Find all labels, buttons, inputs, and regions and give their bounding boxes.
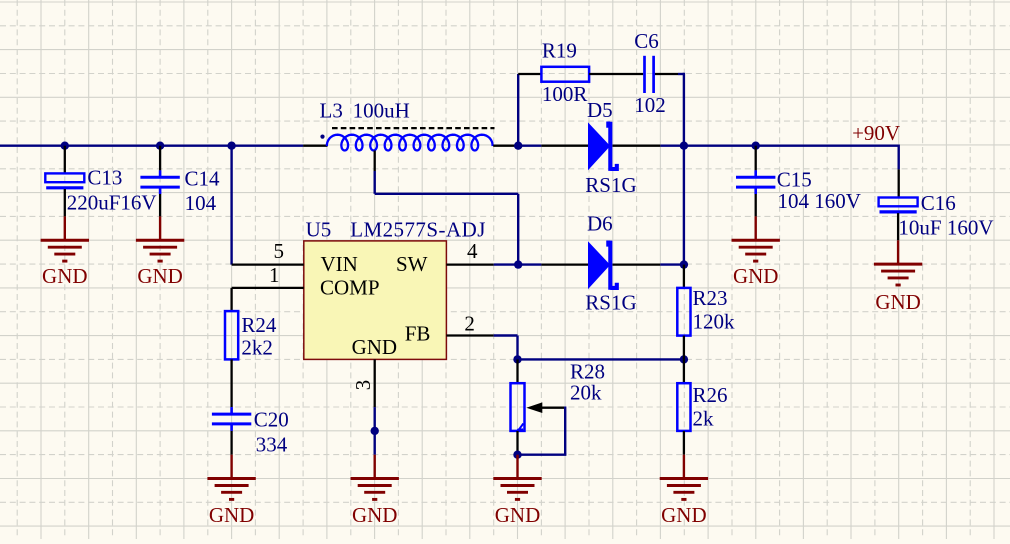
junction node D5 cathode [680,142,688,150]
capacitor C15 pin bottom [755,194,757,216]
svg-text:GND: GND [875,290,921,314]
label C6 value 102 [634,93,666,117]
capacitor C15 body [736,170,775,194]
svg-text:C13: C13 [87,166,122,190]
pin number 2 [464,311,475,335]
resistor R28 pin bottom [516,431,518,455]
power stem GND C15 [755,216,757,240]
resistor R26 pin bottom [683,431,685,455]
svg-text:120k: 120k [693,310,736,334]
svg-text:4: 4 [467,239,478,263]
label C20 designator [254,408,289,432]
pin 5 VIN [232,263,304,265]
svg-text:D6: D6 [587,212,613,236]
label U5 designator [306,217,332,241]
pin number 1 [269,263,280,287]
label C15 designator [777,168,812,192]
label R24 designator [241,313,277,337]
pin 4 SW [446,263,493,265]
capacitor C16 pin top [898,169,900,197]
op-amp U5 body [304,241,447,360]
capacitor C16 body [879,198,918,212]
wire FB stub [494,334,518,336]
capacitor C15 pin top [755,146,757,171]
label L3 value 100uH [353,98,410,122]
svg-text:220uF16V: 220uF16V [67,191,157,215]
power stem GND C20 [230,455,232,479]
resistor R24 body [225,311,238,359]
resistor R19 pin 2 / wire to C6 [589,73,643,75]
pin name GND [352,335,398,359]
label GND U5 [352,503,398,527]
power stem GND R26 [683,455,685,479]
svg-text:GND: GND [137,264,183,288]
diode D6 body [588,241,617,290]
pin name VIN [321,252,358,276]
resistor R23 pin bottom [683,336,685,360]
wire D5-D6 cathode vertical [683,146,685,265]
wire main to R23 node [660,144,684,146]
pin 1 COMP [232,287,304,289]
junction R28 bottom [513,451,521,459]
label R26 value 2k [693,406,715,430]
capacitor C6 pin 2 [655,73,678,75]
capacitor C14 pin top [159,146,161,171]
power stem GND U5 [374,455,376,479]
svg-text:GND: GND [352,503,398,527]
ground GND C14 [136,240,184,261]
ground GND R28 [493,479,541,500]
wire wiper to bottom [518,454,567,456]
svg-text:334: 334 [256,433,288,457]
wire VIN branch vertical [230,146,232,265]
wire COMP corner [230,288,232,311]
diode D5 body [588,122,617,171]
label R26 designator [693,383,728,407]
capacitor C6 plate left [643,56,646,93]
svg-text:C16: C16 [921,191,956,215]
resistor R23 body [677,288,690,336]
capacitor C13 body [45,173,84,187]
inductor L3 polarity dot [320,135,324,139]
label C15 value 104 160V [778,189,861,213]
svg-text:GND: GND [661,503,707,527]
capacitor C6 plate right [652,56,655,93]
svg-text:GND: GND [495,503,541,527]
label R23 designator [693,286,728,310]
wire L3 tap to SW vertical 2 [517,194,519,265]
label R28 value 20k [570,380,602,404]
svg-text:104: 104 [185,191,217,215]
wire R24 to C20 [230,359,232,407]
wire C6 to cathode vertical [678,73,684,75]
label GND R28 [495,503,541,527]
resistor R26 pin top [683,359,685,383]
label C14 value 104 [185,191,217,215]
label C16 designator [921,191,956,215]
pin number 3 [351,380,375,391]
diode D5 anode pin [541,145,588,147]
label C13 designator [87,166,122,190]
label GND C15 [733,264,779,288]
svg-text:GND: GND [42,264,88,288]
svg-text:VIN: VIN [321,252,358,276]
pin name SW [396,252,428,276]
svg-text:R23: R23 [693,286,728,310]
svg-text:L3: L3 [320,98,343,122]
inductor L3 dashed core line [332,127,495,129]
junction FB-R23-R26 [680,355,688,363]
wire D5 anode stub [518,144,541,146]
wire R19 branch vertical [517,74,519,146]
ground GND R26 [660,479,708,500]
label C20 value 334 [256,433,288,457]
svg-text:R24: R24 [241,313,277,337]
svg-text:100R: 100R [542,82,588,106]
wire main input net [0,144,303,146]
wire wiper down [564,407,566,455]
wire pin3 below junction [374,431,376,455]
svg-text:FB: FB [405,322,431,346]
junction node SW-D5 top [514,142,522,150]
wire pin3 to junction [374,407,376,431]
ground GND C13 [41,240,89,261]
svg-text:U5: U5 [306,217,332,241]
label R24 value 2k2 [241,335,273,359]
label R23 value 120k [693,310,736,334]
label C14 designator [185,167,221,191]
svg-text:D5: D5 [587,98,613,122]
label R28 designator [570,359,605,383]
capacitor C14 pin bottom [159,194,161,216]
pin name FB [405,322,431,346]
ground GND C16 [874,264,922,285]
capacitor C13 pin bottom [64,189,66,216]
svg-text:R26: R26 [693,383,728,407]
label R19 designator [542,39,577,63]
power stem GND R28 [516,455,518,479]
pin 2 FB [446,334,493,336]
label C6 designator [634,29,659,53]
label U5 part LM2577S-ADJ [350,217,486,241]
wire R23 node vertical top [683,73,685,146]
pin number 4 [467,239,478,263]
label D5 value RS1G [585,173,636,197]
diode D6 anode pin [541,263,588,265]
ground GND C15 [732,240,780,261]
resistor R19 body [541,67,589,82]
inductor L3 pin 2 [493,145,518,147]
svg-text:1: 1 [269,263,280,287]
capacitor C13 pin top [64,146,66,174]
label C13 value 220uF16V [67,191,157,215]
label C16 value 10uF 160V [898,216,993,240]
svg-text:LM2577S-ADJ: LM2577S-ADJ [350,217,486,241]
svg-text:3: 3 [351,380,375,391]
wire FB vertical [516,336,518,360]
capacitor C16 pin bottom [897,213,899,240]
svg-text:C14: C14 [185,167,221,191]
label GND C20 [209,503,255,527]
label GND C14 [137,264,183,288]
svg-text:C15: C15 [777,168,812,192]
svg-text:RS1G: RS1G [585,291,636,315]
svg-text:C20: C20 [254,408,289,432]
svg-text:2: 2 [464,311,475,335]
wire output net [684,144,899,146]
resistor R28 wiper arrow [526,402,565,413]
junction VIN branch [227,142,235,150]
resistor R28 pin top [516,359,518,383]
label D6 designator [587,212,613,236]
wire output corner down [898,145,900,170]
capacitor C20 [212,407,251,431]
svg-text:R19: R19 [542,39,577,63]
pin name COMP [320,276,380,300]
capacitor C14 body [140,170,179,194]
label D5 designator [587,98,613,122]
svg-text:20k: 20k [570,380,602,404]
svg-text:GND: GND [352,335,398,359]
label net +90V [852,121,900,145]
svg-text:+90V: +90V [852,121,900,145]
svg-text:10uF 160V: 10uF 160V [898,216,993,240]
inductor L3 pin 1 [303,145,327,147]
junction C15 tap [752,142,760,150]
svg-text:RS1G: RS1G [585,173,636,197]
svg-text:102: 102 [634,93,666,117]
label GND C13 [42,264,88,288]
resistor R26 body [677,383,690,431]
pin number 5 [274,239,285,263]
resistor R28 body [511,383,525,431]
wire L3 tap to SW horizontal [375,193,519,195]
power stem GND C13 [64,216,66,240]
power stem GND C16 [897,240,899,264]
ground GND C20 [207,479,255,500]
svg-text:104 160V: 104 160V [778,189,861,213]
pin 3 GND [374,359,376,407]
power stem GND C14 [159,216,161,240]
junction C13 tap [61,142,69,150]
label R19 value 100R [542,82,588,106]
label L3 designator [320,98,343,122]
svg-text:GND: GND [733,264,779,288]
inductor L3 coil [327,135,493,151]
junction pin3 node [371,427,379,435]
wire D6 cathode stub [660,263,684,265]
svg-text:100uH: 100uH [353,98,410,122]
wire FB horizontal [518,358,684,360]
svg-text:SW: SW [396,252,428,276]
svg-text:2k2: 2k2 [241,335,273,359]
label D6 value RS1G [585,291,636,315]
diode D6 cathode pin [613,263,661,265]
resistor R23 pin top [683,265,685,288]
diode D5 cathode pin [613,145,661,147]
svg-text:COMP: COMP [320,276,380,300]
wire SW to node [494,263,519,265]
label GND R26 [661,503,707,527]
junction FB-R28 [513,355,521,363]
label GND C16 [875,290,921,314]
ground GND U5 [351,479,399,500]
junction C14 tap [156,142,164,150]
inductor L3 tap pin [374,151,376,172]
wire L3 tap to SW vertical 1 [374,171,376,194]
svg-text:GND: GND [209,503,255,527]
svg-text:5: 5 [274,239,285,263]
junction node D6 cathode [680,260,688,268]
resistor R19 pin 1 [518,73,541,75]
wire SW node to D6 [518,263,541,265]
svg-text:C6: C6 [634,29,659,53]
svg-text:2k: 2k [693,406,715,430]
wire C20 to GND [230,431,232,455]
junction node SW [514,260,522,268]
